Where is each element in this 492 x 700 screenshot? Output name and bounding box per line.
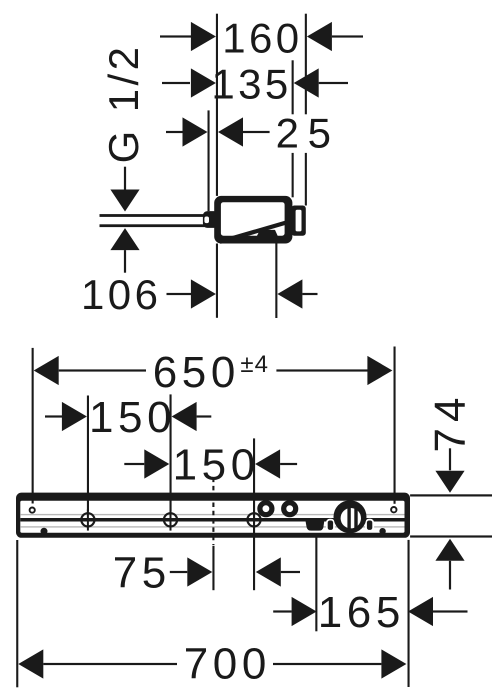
svg-text:650: 650 xyxy=(153,348,240,397)
extension line 650 left xyxy=(32,348,34,504)
dim 75 arrow left xyxy=(187,557,212,586)
valve diagonal lever xyxy=(219,219,291,244)
dim 700 arrow left xyxy=(18,649,43,678)
shower bar body xyxy=(16,493,410,538)
dim 106 tail right xyxy=(302,293,317,295)
thermostat knob disc xyxy=(334,500,367,533)
dim 165 arrow left xyxy=(292,597,317,626)
G 1/2 pointer stem upper xyxy=(124,167,126,190)
G 1/2 pointer stem lower xyxy=(124,250,126,273)
svg-text:G 1/2: G 1/2 xyxy=(100,44,147,164)
dim 700 tail left xyxy=(43,663,177,665)
valve knob interior xyxy=(296,210,302,232)
extension line hole2 xyxy=(170,394,172,511)
dim 650 tail left xyxy=(59,369,146,371)
svg-text:700: 700 xyxy=(184,640,271,689)
knob grip bar left xyxy=(347,507,350,531)
extension line A (x=217, upper) xyxy=(216,14,218,196)
dim 160 arrow left xyxy=(191,22,216,51)
svg-text:74: 74 xyxy=(426,392,475,453)
center line dashed xyxy=(212,478,214,591)
dim 135 tail right xyxy=(319,82,348,84)
dim 25 arrow left xyxy=(183,117,208,146)
thermostat knob inner xyxy=(341,508,361,528)
dim 135 arrow right xyxy=(294,68,319,97)
G 1/2 arrow down xyxy=(110,190,139,212)
dim 150a leader left xyxy=(45,415,63,417)
dim 165 tail right xyxy=(433,610,468,612)
left pin dot xyxy=(41,528,48,535)
dim 150b tail right xyxy=(280,463,297,465)
dim 150a tail right xyxy=(197,415,212,417)
dim 150b arrow right xyxy=(255,449,280,478)
right pin dot xyxy=(379,528,385,534)
dim 106 arrow right xyxy=(277,279,302,308)
extension line F (below valve right) xyxy=(275,244,277,319)
extension line 74 top xyxy=(410,494,492,496)
svg-text:75: 75 xyxy=(113,548,171,597)
shower bar groove line lower xyxy=(20,526,404,527)
dim 150b arrow left xyxy=(144,449,169,478)
dim 75 tail right xyxy=(281,571,300,573)
valve outlet bump xyxy=(257,230,278,237)
dim 150b leader left xyxy=(124,463,144,465)
valve body outline xyxy=(214,196,292,244)
dim 650 arrow left xyxy=(34,356,59,385)
dim 106 leader left xyxy=(167,293,192,295)
extension line 700 left xyxy=(16,540,18,687)
dim 74 stem upper xyxy=(449,448,451,470)
extension line C (x=292.6) xyxy=(292,60,294,197)
dim 165 leader left xyxy=(273,610,292,612)
svg-text:2: 2 xyxy=(276,110,303,157)
extension line 74 bottom xyxy=(410,535,492,537)
dim 74 stem lower xyxy=(449,561,451,590)
svg-text:5: 5 xyxy=(308,110,335,157)
dim 160 leader left xyxy=(160,35,191,37)
knob right ear xyxy=(366,520,373,531)
extension line B (x=306) xyxy=(305,14,307,206)
dim 650 tail right xyxy=(276,369,368,371)
dim 74 arrow up xyxy=(435,539,464,561)
mounting hole 3 crosshair xyxy=(243,509,265,530)
extension line 650 right xyxy=(394,347,396,504)
mounting hole 2 crosshair xyxy=(159,509,181,530)
dim 75 arrow right xyxy=(256,557,281,586)
left screw xyxy=(30,508,35,513)
dim 150a arrow left xyxy=(62,402,87,431)
valve body interior xyxy=(221,202,285,236)
extension line D (x=208.5) xyxy=(208,110,210,211)
dim 106 arrow left xyxy=(191,279,216,308)
valve inlet tab xyxy=(203,211,219,228)
svg-text:150: 150 xyxy=(89,393,176,442)
pipe line lower xyxy=(100,224,206,227)
svg-text:150: 150 xyxy=(173,440,260,489)
mounting hole 1 crosshair xyxy=(77,509,99,530)
knob grip bar right xyxy=(354,507,357,531)
shower bar center rail xyxy=(20,518,404,522)
dim 135 arrow left xyxy=(191,68,216,97)
extension line E (below valve left) xyxy=(216,244,218,318)
dim 700 arrow right xyxy=(381,649,406,678)
dim 75 leader left xyxy=(170,571,188,573)
extension line 700 right xyxy=(408,540,410,687)
extension line hole1 xyxy=(87,396,89,512)
dim 135 leader left xyxy=(162,82,190,84)
handle ring 1 xyxy=(260,503,272,515)
dim 160 arrow right xyxy=(307,22,332,51)
G 1/2 arrow up xyxy=(110,228,139,250)
dim 165 arrow right xyxy=(408,597,433,626)
valve inlet tab hole xyxy=(204,217,209,224)
dim 25 tail right xyxy=(243,131,270,133)
svg-text:165: 165 xyxy=(318,588,405,637)
dim 74 arrow down xyxy=(435,471,464,493)
svg-text:135: 135 xyxy=(211,61,291,108)
dim 700 tail right xyxy=(273,663,381,665)
eco button xyxy=(306,522,325,531)
svg-text:160: 160 xyxy=(222,14,302,61)
svg-text:±4: ±4 xyxy=(240,351,269,378)
dim 25 arrow right xyxy=(218,117,243,146)
right screw xyxy=(391,507,396,512)
handle ring 2 xyxy=(284,503,296,515)
valve knob outline xyxy=(291,206,306,236)
extension line eco button xyxy=(315,537,317,631)
dim 25 leader left xyxy=(166,131,183,133)
dim 160 tail right xyxy=(332,35,363,37)
knob left ear xyxy=(327,520,334,531)
svg-text:106: 106 xyxy=(81,271,161,318)
dim 150a arrow right xyxy=(172,402,197,431)
pipe line upper xyxy=(100,214,206,217)
shower bar interior xyxy=(20,501,404,533)
shower bar groove line upper xyxy=(20,514,404,515)
extension line hole3 xyxy=(253,438,255,590)
dim 650 arrow right xyxy=(367,356,392,385)
